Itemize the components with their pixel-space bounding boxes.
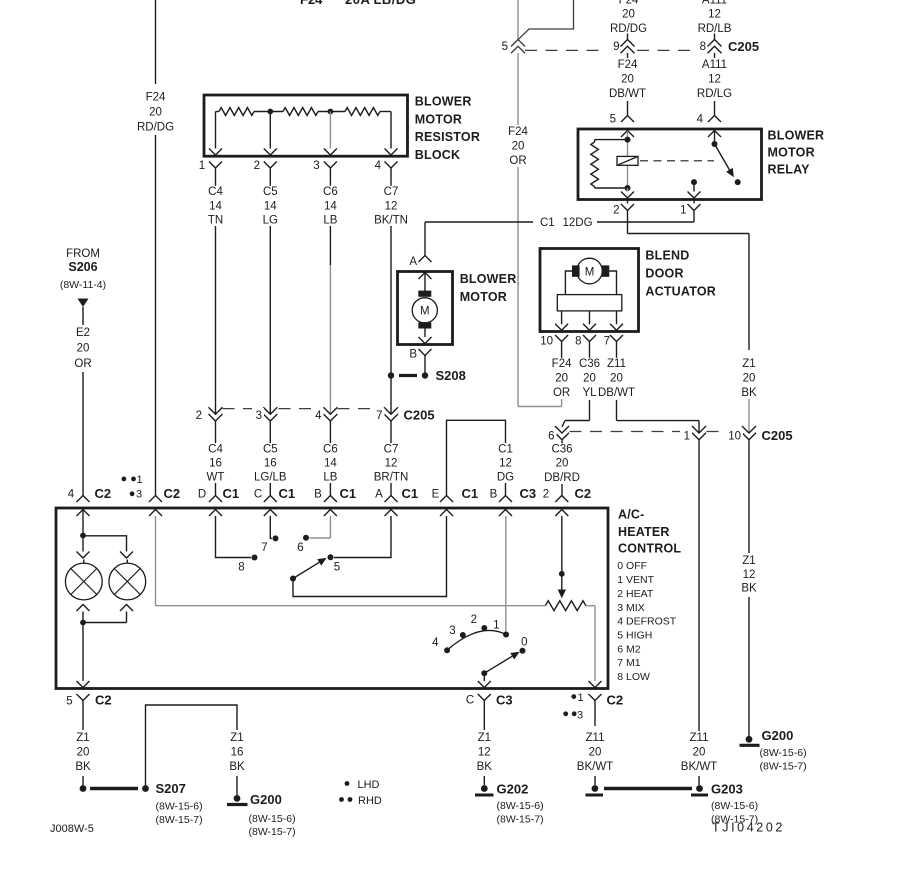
svg-text:CONTROL: CONTROL: [618, 542, 681, 556]
svg-text:20: 20: [622, 9, 635, 21]
wire Z1 12 BK to G202: [483, 701, 485, 786]
lamp 2 socket connector (bottom): [120, 605, 133, 623]
svg-text:20: 20: [589, 747, 602, 759]
svg-text:F24: F24: [619, 0, 639, 7]
wire C5 14 LG: [269, 168, 271, 414]
svg-text:C1: C1: [540, 217, 555, 229]
svg-text:12: 12: [499, 458, 512, 470]
svg-text:B: B: [409, 349, 417, 361]
svg-text:C3: C3: [496, 693, 513, 708]
label C1 12DG: [540, 217, 593, 229]
svg-text:16: 16: [231, 747, 244, 759]
option dots LHD pin 1: [122, 474, 143, 486]
svg-text:BK: BK: [229, 761, 245, 773]
wire C36 20 DB/RD: [561, 440, 563, 495]
svg-text:8: 8: [575, 336, 581, 348]
wire C4 14 TN: [215, 168, 217, 414]
label Z11 20 DB/WT: [598, 358, 635, 399]
blower motor symbol M: [412, 291, 437, 329]
relay pin 4 connector: [697, 114, 721, 126]
control pin B C3 connector: [490, 486, 536, 516]
svg-text:RD/DG: RD/DG: [137, 122, 174, 134]
svg-text:OR: OR: [74, 358, 91, 370]
svg-text:C5: C5: [263, 443, 278, 455]
svg-text:6: 6: [548, 431, 554, 443]
legend RHD: [339, 795, 382, 807]
svg-text:D: D: [198, 489, 206, 501]
svg-text:S207: S207: [156, 781, 186, 796]
svg-text:G200: G200: [250, 792, 282, 807]
control pin 5 C2 connector: [66, 693, 111, 708]
option dots LHD pin 1 (bottom): [571, 692, 583, 704]
svg-text:2: 2: [196, 410, 202, 422]
svg-text:C2: C2: [164, 486, 181, 501]
dashed connector line C205 (lower): [570, 431, 741, 433]
connector C205 pin 3: [252, 407, 277, 422]
svg-text:4: 4: [315, 410, 322, 422]
sheet number TJI04202: [712, 821, 785, 835]
svg-text:C1: C1: [462, 486, 479, 501]
wire F24 OR vertical (gray): [517, 0, 519, 407]
svg-text:2: 2: [613, 205, 619, 217]
label C6 14 LB: [321, 186, 339, 227]
svg-text:C205: C205: [404, 408, 435, 423]
svg-text:20: 20: [583, 373, 596, 385]
legend LHD: [345, 779, 380, 791]
svg-text:C1: C1: [402, 486, 419, 501]
svg-text:Z11: Z11: [607, 358, 626, 370]
svg-text:MOTOR: MOTOR: [415, 112, 462, 126]
blend door pin 7 connector: [604, 335, 623, 348]
resistor block pin terminals (inside): [209, 149, 398, 156]
svg-text:3: 3: [256, 410, 262, 422]
svg-text:LHD: LHD: [358, 779, 380, 791]
svg-text:C1: C1: [223, 486, 240, 501]
option dots RHD pin 3: [130, 489, 142, 501]
blower motor pin A connector: [409, 256, 431, 269]
svg-text:C36: C36: [579, 358, 600, 370]
svg-text:LB: LB: [323, 215, 337, 227]
svg-text:BK: BK: [741, 583, 757, 595]
svg-text:C36: C36: [551, 444, 572, 456]
svg-text:C2: C2: [575, 486, 592, 501]
wire Z1 20 BK from relay pin 2: [628, 211, 750, 351]
wire Z1 20 BK to S207: [82, 701, 84, 789]
svg-text:E2: E2: [76, 327, 90, 339]
label C5 16 LG/LB: [254, 443, 287, 483]
resistor element chain: [216, 108, 392, 116]
mode switch arm: [481, 652, 518, 676]
label C4 16 WT: [207, 443, 225, 483]
svg-text:C6: C6: [323, 186, 338, 198]
svg-text:12: 12: [385, 201, 398, 213]
svg-text:(8W-15-7): (8W-15-7): [497, 814, 544, 826]
relay pin 4 terminal (inside): [708, 131, 721, 145]
svg-text:14: 14: [324, 458, 337, 470]
blend door pin terminals (inside): [555, 324, 623, 331]
label C7 12 BK/TN: [374, 186, 408, 227]
svg-text:BK: BK: [75, 761, 91, 773]
svg-text:20: 20: [610, 373, 623, 385]
wire C36 20 YL: [562, 342, 590, 427]
svg-text:MOTOR: MOTOR: [460, 290, 507, 304]
switch contact 5 wiring: [328, 516, 392, 574]
splice S207: [80, 781, 203, 826]
svg-text:B: B: [314, 489, 322, 501]
label F24 20 OR (blend door): [552, 358, 572, 399]
lamp 1 socket connector (top): [77, 536, 90, 559]
svg-text:C: C: [254, 489, 262, 501]
lamp return junction: [80, 620, 126, 626]
svg-text:1: 1: [199, 160, 205, 172]
control pin C2 terminal bottom-right (inside): [589, 681, 602, 688]
svg-text:YL: YL: [582, 387, 597, 399]
blower motor resistor block box: [204, 95, 408, 156]
rheostat resistor element: [545, 601, 586, 611]
svg-text:0: 0: [521, 637, 527, 649]
illumination lamp 1: [65, 560, 102, 600]
svg-text:DG: DG: [497, 472, 514, 484]
svg-text:S208: S208: [436, 368, 466, 383]
label Z11 20 BK/WT (bottom): [577, 732, 613, 773]
svg-text:G200: G200: [762, 728, 794, 743]
connector C205 pin 5: [502, 40, 525, 54]
svg-text:5: 5: [610, 114, 616, 126]
wire lamp return to pin 5: [82, 623, 84, 682]
control pin A C1 connector: [375, 486, 418, 516]
svg-text:C1: C1: [340, 486, 357, 501]
svg-text:M: M: [420, 306, 430, 318]
svg-text:2: 2: [543, 489, 549, 501]
svg-text:DB/WT: DB/WT: [609, 88, 646, 100]
blower motor pin B connector: [409, 349, 431, 361]
svg-text:6: 6: [297, 542, 303, 554]
svg-text:G202: G202: [497, 782, 529, 797]
control pin B C1 connector: [314, 486, 356, 516]
label C6 14 LB (lower): [321, 443, 339, 483]
rheostat left wire (gray): [156, 516, 546, 606]
svg-text:5: 5: [334, 562, 340, 574]
svg-text:F24: F24: [146, 92, 166, 104]
svg-text:8: 8: [700, 41, 706, 53]
relay switch pivot dot: [712, 141, 718, 147]
label Z1 20 BK (bottom left): [74, 732, 92, 773]
wire jumper pin E to pin B C3: [447, 420, 506, 495]
svg-text:20: 20: [743, 373, 756, 385]
switch contact 8 wiring: [216, 516, 258, 574]
blend door internal drops: [562, 311, 617, 324]
relay coil-to-contact dashed link: [640, 160, 714, 162]
svg-text:F24: F24: [552, 358, 572, 370]
svg-text:2 HEAT: 2 HEAT: [617, 588, 654, 600]
relay pin 1 connector: [680, 200, 700, 217]
label C205 (middle): [404, 408, 435, 423]
svg-text:3 MIX: 3 MIX: [617, 602, 644, 614]
svg-text:TJI04202: TJI04202: [712, 821, 785, 835]
wire E2 OR: [82, 307, 84, 496]
svg-text:HEATER: HEATER: [618, 525, 670, 539]
wire A111 RD/LB above pin 8: [698, 0, 732, 40]
label G203: [711, 782, 758, 826]
control pin D C1 connector: [198, 486, 239, 516]
label BLOWER MOTOR: [460, 272, 517, 304]
svg-text:12: 12: [743, 569, 756, 581]
wire F24 RD/DG above pin 9: [610, 0, 647, 40]
svg-text:F24: F24: [618, 59, 638, 71]
svg-text:ACTUATOR: ACTUATOR: [645, 285, 716, 299]
svg-text:(8W-15-6): (8W-15-6): [711, 800, 758, 812]
relay coil branch (gray): [627, 140, 629, 188]
resistor block internal drops: [216, 112, 392, 149]
svg-text:14: 14: [324, 201, 337, 213]
svg-text:3: 3: [313, 160, 319, 172]
svg-text:3: 3: [136, 489, 142, 501]
wire C1 12DG from relay pin 1: [425, 211, 694, 223]
svg-text:BLEND: BLEND: [645, 248, 689, 262]
mode contact 2: [471, 614, 488, 631]
blend door motor symbol M: [572, 258, 609, 284]
resistor tap dots: [267, 109, 333, 115]
label C7 12 BR/TN: [374, 443, 409, 483]
label C1 12 DG: [497, 443, 515, 483]
lamp 2 socket connector (top): [120, 550, 133, 559]
svg-text:1: 1: [493, 620, 499, 632]
label FROM S206 (8W-11-4): [60, 248, 106, 291]
svg-text:16: 16: [209, 458, 222, 470]
wire F24 DB/WT to relay pin 5: [627, 53, 629, 116]
wire Z11 20 DB/WT: [617, 342, 700, 434]
svg-text:LG: LG: [263, 215, 278, 227]
svg-text:FROM: FROM: [66, 248, 100, 260]
label E2 20 OR: [74, 327, 92, 370]
svg-text:9: 9: [613, 41, 619, 53]
svg-text:C4: C4: [208, 186, 223, 198]
svg-text:F24: F24: [508, 126, 528, 138]
svg-text:Z1: Z1: [478, 732, 491, 744]
blower motor box: [398, 272, 453, 345]
resistor block pin 1 connector: [199, 160, 222, 172]
svg-text:16: 16: [264, 458, 277, 470]
relay pin 5 terminal (inside): [621, 131, 634, 140]
svg-text:A111: A111: [702, 0, 727, 7]
control pin E C1 connector: [432, 486, 478, 516]
svg-text:C7: C7: [384, 443, 399, 455]
svg-text:C2: C2: [95, 486, 112, 501]
label A/C-HEATER CONTROL: [618, 508, 681, 556]
svg-text:4 DEFROST: 4 DEFROST: [617, 616, 677, 628]
svg-text:1: 1: [684, 431, 690, 443]
label C205 (top): [728, 39, 759, 54]
svg-text:BLOCK: BLOCK: [415, 148, 460, 162]
svg-text:Z1: Z1: [742, 358, 755, 370]
fuse label (cut off at top edge): [300, 0, 416, 7]
svg-text:(8W-15-7): (8W-15-7): [249, 826, 296, 838]
svg-text:M: M: [585, 266, 595, 278]
svg-text:BLOWER: BLOWER: [415, 94, 472, 108]
control pin 2 C2 connector: [543, 486, 591, 516]
mode switch arc: [447, 630, 506, 650]
connector C205 pin 7: [373, 407, 399, 422]
rheostat wiper dot: [559, 571, 565, 577]
svg-text:20: 20: [149, 107, 162, 119]
ground G203: [586, 785, 709, 795]
svg-text:12: 12: [385, 458, 398, 470]
label C205 (lower): [762, 428, 793, 443]
svg-text:20: 20: [77, 343, 90, 355]
blend door gear block: [557, 295, 622, 311]
relay pin 5 connector: [610, 114, 634, 126]
svg-text:7: 7: [604, 336, 610, 348]
control pin 5 terminal (inside): [77, 681, 90, 688]
svg-text:Z1: Z1: [230, 732, 243, 744]
connector C205 pin 8: [700, 40, 722, 54]
blower switch common wire: [293, 516, 447, 597]
svg-text:C205: C205: [762, 428, 793, 443]
svg-text:A/C-: A/C-: [618, 508, 645, 522]
wire C6 14 LB (lower): [329, 421, 331, 496]
relay pin 1 terminal (inside): [688, 192, 701, 199]
mode switch common wire: [483, 673, 485, 681]
relay common contact dot: [691, 179, 697, 191]
blend door motor wires: [565, 271, 616, 295]
svg-text:10: 10: [728, 431, 741, 443]
label F24 20 RD/DG: [137, 91, 174, 133]
svg-text:2: 2: [254, 160, 260, 172]
svg-text:12: 12: [478, 747, 491, 759]
svg-text:7 M1: 7 M1: [617, 657, 641, 669]
svg-text:RELAY: RELAY: [768, 163, 811, 177]
blower motor relay box: [578, 129, 762, 200]
label F24 20 DB/WT: [609, 59, 646, 100]
off-page arrow from S206: [78, 299, 89, 308]
blower motor pin A terminal (inside): [419, 273, 432, 296]
label Z1 12 BK (bottom): [475, 732, 493, 773]
svg-text:20: 20: [512, 141, 525, 153]
svg-text:5 HIGH: 5 HIGH: [617, 629, 652, 641]
wire Z1 (gray) into C205 pin 10: [748, 399, 750, 433]
svg-text:BR/TN: BR/TN: [374, 472, 409, 484]
connector C205 pin 6: [545, 426, 570, 443]
mode contact 0: [520, 637, 528, 654]
switch contact 7 wiring: [261, 516, 278, 554]
lamp 1 socket connector (bottom): [77, 605, 90, 623]
svg-text:G203: G203: [711, 782, 743, 797]
mode contact 4: [432, 637, 450, 653]
svg-text:7: 7: [261, 542, 267, 554]
svg-text:F24: F24: [300, 0, 323, 7]
svg-text:(8W-11-4): (8W-11-4): [60, 279, 106, 291]
label A111 12 RD/LG: [697, 59, 732, 100]
svg-text:C1: C1: [279, 486, 296, 501]
wire branch to lamp 2: [83, 536, 127, 550]
svg-text:C1: C1: [498, 443, 513, 455]
svg-text:20: 20: [555, 373, 568, 385]
svg-text:4: 4: [375, 160, 382, 172]
svg-text:BK/WT: BK/WT: [577, 761, 613, 773]
control pin C terminal (inside): [478, 681, 491, 688]
wire C7 12 BK/TN: [390, 168, 392, 414]
wire C4 16 WT: [215, 421, 217, 496]
control pin 1/3 C2 connector: [149, 486, 180, 516]
svg-text:14: 14: [264, 201, 277, 213]
svg-text:1: 1: [680, 205, 686, 217]
resistor block pin 4 connector: [375, 160, 398, 172]
svg-text:Z1: Z1: [742, 555, 755, 567]
connector C205 pin 10: [725, 426, 756, 443]
svg-text:C: C: [466, 695, 474, 707]
svg-text:C7: C7: [384, 186, 399, 198]
illumination lamp 2: [109, 560, 146, 600]
wire C6 14 LB: [329, 168, 331, 414]
wire blower motor pin A: [424, 222, 426, 256]
splice S208: [388, 368, 466, 383]
svg-text:LB: LB: [323, 472, 337, 484]
svg-text:DOOR: DOOR: [645, 266, 683, 280]
svg-text:OR: OR: [509, 155, 526, 167]
connector C205 pin 9: [613, 40, 634, 54]
svg-text:14: 14: [209, 201, 222, 213]
svg-text:RESISTOR: RESISTOR: [415, 130, 480, 144]
label Z1 16 BK: [228, 732, 246, 773]
svg-text:10: 10: [540, 336, 553, 348]
connector C205 pin 4: [312, 407, 338, 422]
svg-text:TN: TN: [208, 215, 223, 227]
svg-text:C5: C5: [263, 186, 278, 198]
wire Z11 20 BK/WT (to G203): [698, 440, 700, 785]
mode contact 3: [449, 625, 466, 638]
svg-text:BK/WT: BK/WT: [681, 761, 717, 773]
svg-text:Z11: Z11: [586, 732, 605, 744]
label BLOWER MOTOR RELAY: [768, 128, 825, 176]
wire lamp feed from pin 4: [82, 510, 84, 536]
svg-text:S206: S206: [68, 260, 97, 274]
dashed connector line C205 (middle): [223, 408, 383, 410]
svg-text:Z1: Z1: [76, 732, 89, 744]
svg-text:(8W-15-6): (8W-15-6): [760, 747, 807, 759]
svg-text:20A LB/DG: 20A LB/DG: [345, 0, 416, 7]
svg-text:WT: WT: [207, 472, 225, 484]
label C36 20 DB/RD: [544, 443, 580, 484]
resistor block pin 2 connector: [254, 160, 277, 172]
svg-text:(8W-15-6): (8W-15-6): [497, 800, 544, 812]
svg-text:C2: C2: [607, 693, 624, 708]
svg-text:1: 1: [137, 474, 143, 486]
svg-text:2: 2: [471, 614, 477, 626]
svg-text:(8W-15-6): (8W-15-6): [249, 813, 296, 825]
svg-text:4: 4: [697, 114, 704, 126]
svg-text:4: 4: [432, 637, 439, 649]
svg-text:3: 3: [449, 625, 455, 637]
svg-text:8: 8: [238, 562, 244, 574]
label BLEND DOOR ACTUATOR: [645, 248, 716, 298]
label Z1 20 BK: [740, 358, 758, 399]
blower motor pin B terminal (inside): [419, 329, 432, 344]
svg-text:8 LOW: 8 LOW: [617, 671, 650, 683]
svg-text:MOTOR: MOTOR: [768, 146, 815, 160]
wire F24 20 OR (blend door pin 10): [518, 342, 562, 407]
svg-text:BLOWER: BLOWER: [460, 272, 517, 286]
blower switch arm: [290, 559, 326, 582]
svg-text:12: 12: [708, 9, 721, 21]
connector C205 pin 2: [192, 407, 223, 422]
svg-text:B: B: [490, 489, 498, 501]
wire Z11 20 BK/WT (control) to G203: [594, 701, 596, 786]
wire jog into C205 pin 5: [519, 0, 574, 39]
svg-text:C205: C205: [728, 39, 759, 54]
blend door pin 10 connector: [540, 335, 568, 348]
relay pin 2 terminal (inside): [621, 188, 634, 198]
svg-text:1: 1: [578, 692, 584, 704]
